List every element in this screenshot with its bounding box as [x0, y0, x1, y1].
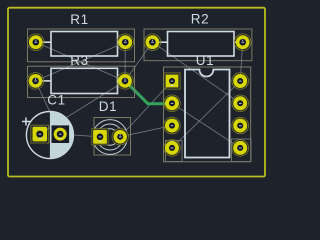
- svg-text:D1: D1: [99, 99, 117, 114]
- ratsnest R1.2 to R3.1: [36, 42, 126, 81]
- pad U1.3: [164, 117, 181, 134]
- pad R3.1: [27, 73, 44, 90]
- pad C1.1: [31, 125, 49, 143]
- courtyard R1: [28, 29, 135, 62]
- filled half C1: [50, 112, 73, 159]
- board outline Edge.Cuts: [8, 8, 265, 177]
- courtyard R3: [28, 66, 135, 97]
- pad C1.2: [54, 128, 67, 141]
- svg-text:U1: U1: [196, 53, 214, 68]
- pad R2.2: [234, 34, 251, 51]
- body R1: [51, 32, 118, 57]
- clearance gaps D1: [92, 128, 109, 145]
- svg-text:R2: R2: [191, 12, 209, 27]
- pad U1.6: [232, 95, 249, 112]
- ratsnest R2.1 to U1.6: [152, 42, 240, 103]
- ratsnest R1.2 to R3.2: [124, 42, 126, 81]
- ratsnest R2.2 to U1.5: [240, 42, 243, 81]
- ratsnest R3.1 to C1.2: [36, 81, 61, 134]
- lead lines R3: [43, 80, 52, 82]
- pad R3.2: [117, 73, 134, 90]
- pad U1.1: [164, 73, 180, 89]
- svg-text:R1: R1: [70, 12, 88, 27]
- pad U1.5: [232, 73, 249, 90]
- pad D1.2: [112, 129, 128, 145]
- ratsnest R2.1 to R3.2: [125, 42, 152, 81]
- ratsnest D1.2 to U1.1: [120, 81, 172, 137]
- pad R1.2: [117, 34, 134, 51]
- clearance gap around pad C1.2: [52, 125, 70, 143]
- pad hole net-name marks: [34, 40, 244, 149]
- trace net to U1 pin2: [125, 81, 172, 104]
- diode D1: [92, 99, 131, 155]
- body circle C1: [26, 112, 73, 159]
- svg-text:R3: R3: [70, 53, 88, 68]
- lead lines R2: [159, 41, 167, 43]
- pad U1.4: [166, 141, 183, 162]
- lead lines R1: [43, 41, 51, 43]
- ratsnest U1.5 to U1.4: [172, 81, 240, 148]
- ratsnest U1.2 to U1.8: [172, 103, 240, 148]
- body U1 with notch: [185, 70, 230, 158]
- IC U1: [164, 53, 252, 162]
- svg-text:C1: C1: [47, 93, 65, 108]
- resistor R1: [28, 12, 135, 62]
- ratsnest D1.2 to U1.3: [120, 126, 172, 137]
- pad D1.1: [92, 129, 108, 145]
- pad U1.2: [164, 95, 181, 112]
- body circles D1: [102, 129, 119, 146]
- ratsnest C1.1 to R3.2: [40, 81, 125, 134]
- courtyard U1: [164, 67, 251, 162]
- ratsnest C1.2 to D1.1: [60, 134, 100, 137]
- body R3: [51, 68, 118, 93]
- resistor R3: [27, 53, 134, 98]
- ratsnest R1.1 to R3.2: [36, 42, 125, 81]
- courtyard R2: [144, 29, 252, 61]
- pad R2.1: [144, 34, 161, 51]
- courtyard D1: [94, 118, 131, 156]
- pad U1.7: [232, 117, 249, 134]
- resistor R2: [144, 12, 252, 61]
- pad U1.8: [232, 139, 252, 162]
- plus mark C1: [22, 118, 30, 126]
- body R2: [168, 32, 235, 57]
- pad R1.1: [28, 34, 45, 51]
- capacitor C1: [22, 93, 73, 159]
